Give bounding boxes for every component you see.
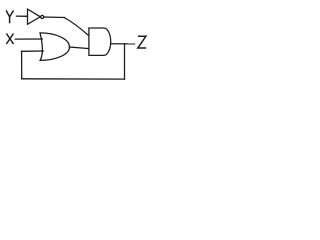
output label Z — [138, 36, 146, 48]
inverter U1 triangle — [28, 9, 41, 24]
input label X — [6, 34, 13, 45]
input label Y — [6, 10, 13, 23]
wire feedback stub to OR lower input — [22, 50, 44, 52]
wire AND output to Z — [111, 43, 135, 45]
AND gate U3 — [89, 28, 111, 55]
wire inverter output horizontal — [44, 16, 64, 19]
wire feedback bottom — [22, 78, 125, 80]
wire X to OR upper input — [15, 38, 42, 40]
wire Y to inverter input — [17, 15, 28, 17]
wire OR output to AND lower input — [70, 47, 89, 49]
inverter U1 output bubble — [41, 15, 44, 18]
wire diagonal to AND upper input — [64, 18, 88, 36]
wire feedback riser right — [124, 44, 126, 79]
wire feedback riser left — [21, 51, 23, 79]
OR gate U2 — [40, 33, 70, 61]
